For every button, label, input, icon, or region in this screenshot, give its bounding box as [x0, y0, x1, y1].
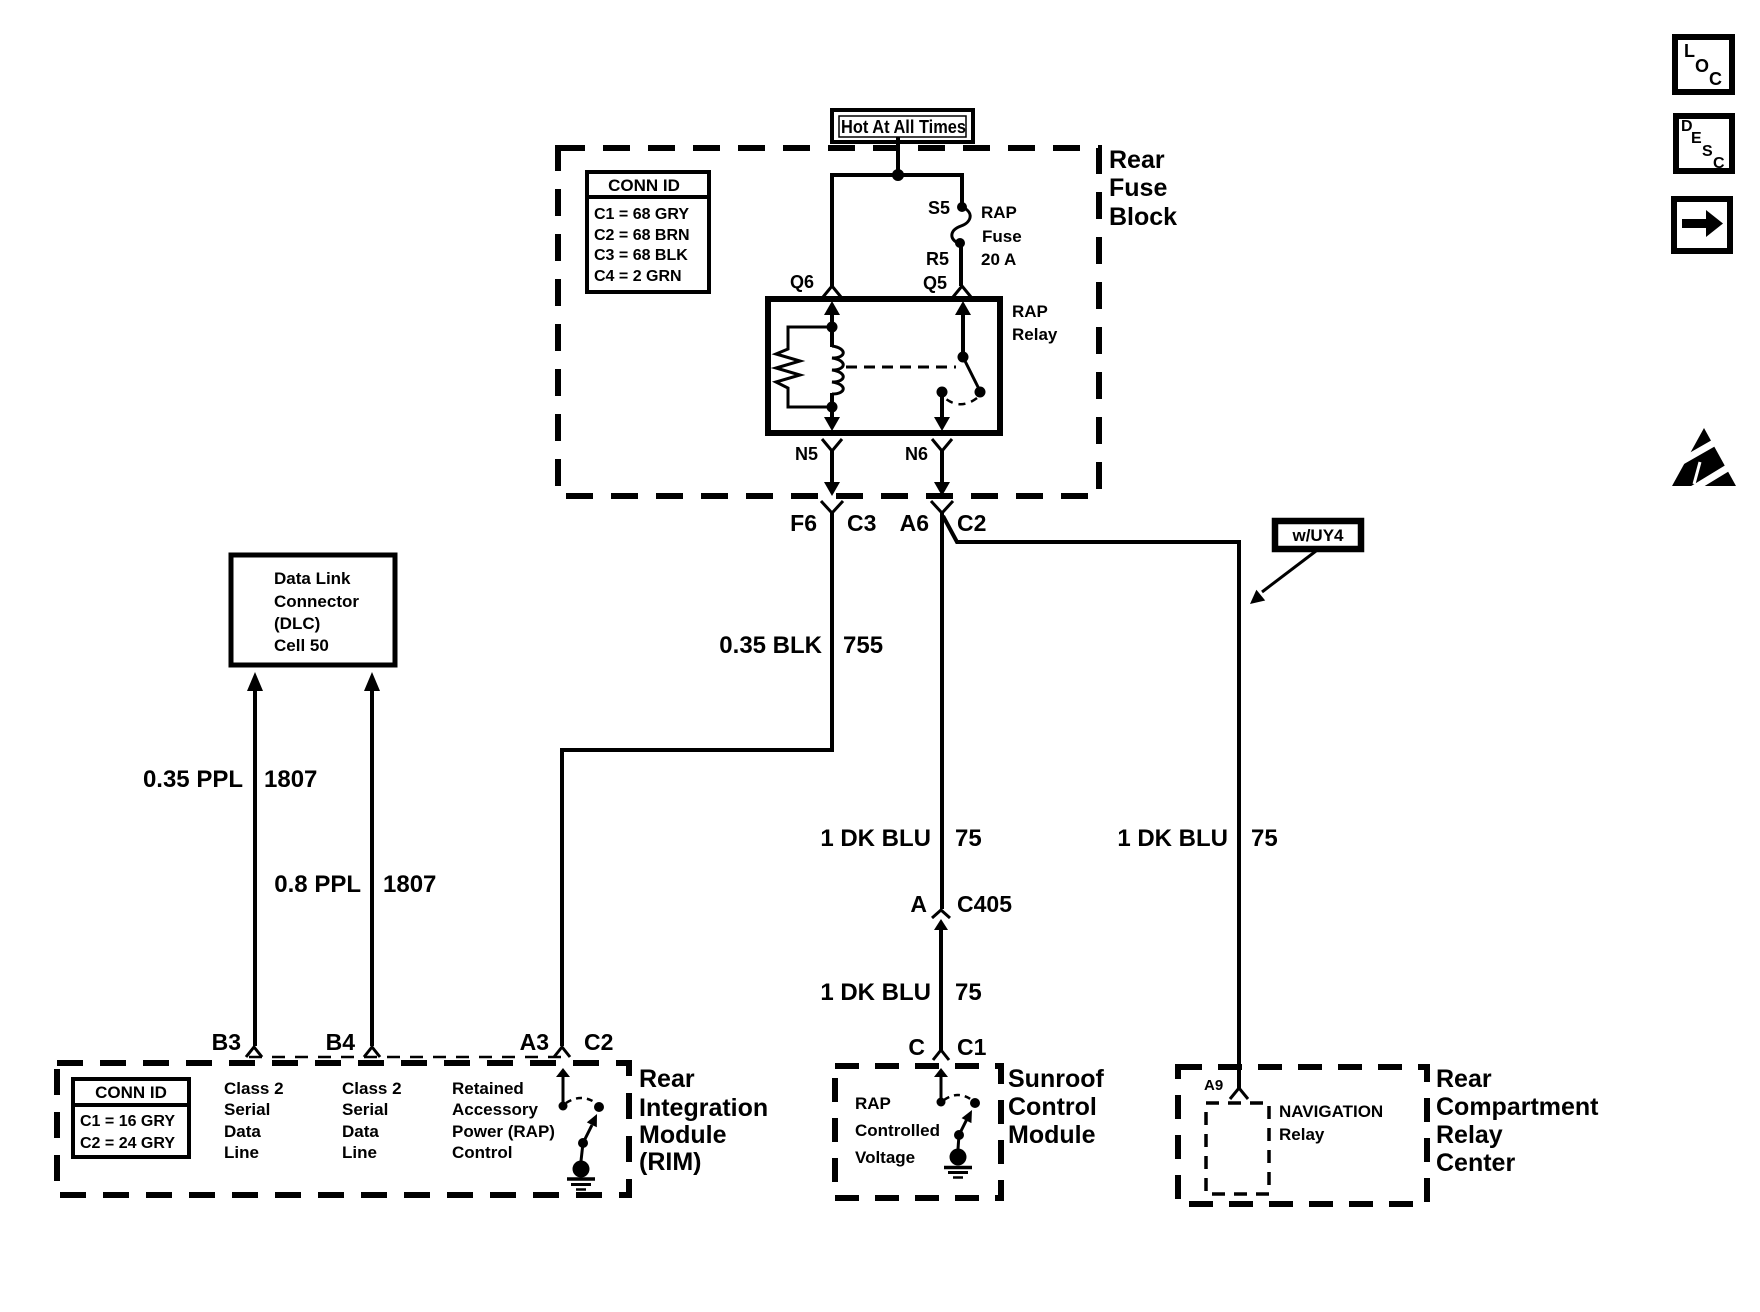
svg-text:Fuse: Fuse: [1109, 174, 1167, 202]
dashed throw arc: [946, 398, 977, 404]
terminal Q5: [953, 286, 971, 297]
svg-text:NAVIGATION: NAVIGATION: [1279, 1102, 1383, 1121]
svg-text:Rear: Rear: [639, 1065, 695, 1093]
relay pin 87 arrow: [934, 392, 950, 431]
svg-text:Data: Data: [224, 1122, 261, 1141]
svg-text:0.8 PPL: 0.8 PPL: [274, 871, 361, 898]
relay pin 30 arrow: [955, 301, 971, 357]
svg-text:R5: R5: [926, 249, 949, 269]
label 0.35 BLK 755: [719, 632, 883, 659]
Rear Integration Module name: [639, 1065, 768, 1176]
svg-text:N6: N6: [905, 444, 928, 464]
terminal C of sunroof module: [933, 1050, 949, 1060]
svg-text:C3 = 68 BLK: C3 = 68 BLK: [594, 247, 688, 264]
wire from Hot At All Times: [896, 137, 900, 175]
svg-text:Accessory: Accessory: [452, 1100, 539, 1119]
svg-text:0.35 BLK: 0.35 BLK: [719, 632, 822, 659]
DESC legend icon: [1676, 116, 1732, 172]
svg-text:w/UY4: w/UY4: [1291, 526, 1344, 545]
RIM connector face dotted line: [249, 1056, 568, 1059]
svg-text:Serial: Serial: [342, 1100, 388, 1119]
svg-text:755: 755: [843, 632, 883, 659]
svg-text:Data: Data: [342, 1122, 379, 1141]
LOC legend icon: [1675, 37, 1732, 92]
terminal N5: [822, 439, 842, 496]
svg-text:Relay: Relay: [1436, 1121, 1503, 1149]
wire 1807 PPL from B3 to DLC: [247, 672, 263, 1046]
svg-text:Class 2: Class 2: [224, 1079, 284, 1098]
svg-text:75: 75: [955, 979, 982, 1006]
svg-text:Fuse: Fuse: [982, 227, 1022, 246]
svg-text:A: A: [910, 891, 927, 917]
svg-text:1 DK BLU: 1 DK BLU: [1117, 825, 1228, 852]
wire branch to relay center: [943, 516, 1239, 1088]
sunroof switch arrow: [934, 1068, 948, 1099]
wire fuse to terminal Q5: [959, 244, 963, 286]
svg-text:CONN ID: CONN ID: [608, 176, 680, 195]
NAVIGATION Relay name: [1279, 1102, 1383, 1144]
svg-text:S5: S5: [928, 198, 950, 218]
svg-text:C3: C3: [847, 510, 876, 536]
Class 2 Serial Data Line label (B4): [342, 1079, 402, 1162]
svg-text:C: C: [908, 1034, 925, 1060]
navigation relay dashed box: [1206, 1103, 1269, 1194]
RIM switch contact node: [559, 1102, 568, 1111]
svg-text:O: O: [1695, 56, 1709, 76]
svg-text:B3: B3: [212, 1029, 241, 1055]
RIM switch to ground lead: [581, 1143, 583, 1161]
label 0.8 PPL 1807: [274, 871, 436, 898]
wire to terminal Q6: [830, 175, 834, 286]
svg-text:C: C: [1713, 155, 1725, 172]
svg-text:(RIM): (RIM): [639, 1148, 701, 1176]
svg-text:Cell 50: Cell 50: [274, 636, 329, 655]
svg-text:N5: N5: [795, 444, 818, 464]
terminal B3: [246, 1047, 262, 1057]
svg-text:Q6: Q6: [790, 272, 814, 292]
svg-text:0.35 PPL: 0.35 PPL: [143, 766, 243, 793]
terminal N6: [932, 439, 952, 496]
svg-text:Control: Control: [1008, 1093, 1097, 1121]
svg-text:Power (RAP): Power (RAP): [452, 1122, 555, 1141]
svg-text:Relay: Relay: [1279, 1125, 1325, 1144]
svg-text:RAP: RAP: [1012, 302, 1048, 321]
svg-text:L: L: [1684, 41, 1695, 61]
Rear Integration Module dashed boundary: [57, 1063, 629, 1195]
svg-text:75: 75: [955, 825, 982, 852]
svg-text:Class 2: Class 2: [342, 1079, 402, 1098]
CONN ID table (Rear Fuse Block): [587, 172, 709, 292]
junction: [892, 169, 904, 181]
terminal A3: [554, 1047, 570, 1057]
node coil top: [827, 322, 838, 333]
svg-text:1807: 1807: [383, 871, 436, 898]
sunroof switch upper node: [970, 1098, 980, 1108]
svg-text:Voltage: Voltage: [855, 1148, 915, 1167]
terminal A9: [1230, 1088, 1248, 1099]
svg-text:(DLC): (DLC): [274, 614, 320, 633]
RAP Fuse 20 A name: [981, 203, 1022, 269]
svg-text:75: 75: [1251, 825, 1278, 852]
svg-text:Line: Line: [342, 1143, 377, 1162]
sunroof switch dashed throw arc: [944, 1095, 972, 1100]
Hot At All Times power label box: [832, 110, 973, 142]
node switch arm end: [975, 387, 986, 398]
svg-text:RAP: RAP: [855, 1094, 891, 1113]
RIM RAP control switch arrow: [556, 1068, 570, 1103]
svg-text:Hot At All Times: Hot At All Times: [841, 117, 966, 137]
wire 1807 PPL from B4 to DLC: [364, 672, 380, 1046]
svg-text:CONN ID: CONN ID: [95, 1083, 167, 1102]
svg-text:B4: B4: [326, 1029, 356, 1055]
relay actuation dashed link: [846, 366, 956, 369]
Rear Fuse Block name: [1109, 146, 1177, 231]
relay coil: [832, 327, 843, 407]
inline connector C405: [932, 910, 950, 1050]
svg-text:20 A: 20 A: [981, 250, 1016, 269]
relay suppression resistor: [776, 327, 832, 407]
Sunroof Control Module dashed boundary: [835, 1066, 1001, 1198]
Sunroof Control Module name: [1008, 1065, 1104, 1149]
RIM switch arm: [583, 1114, 597, 1143]
Rear Compartment Relay Center name: [1436, 1065, 1599, 1177]
Class 2 Serial Data Line label (B3): [224, 1079, 284, 1162]
relay pin 86 arrow: [824, 301, 840, 327]
svg-text:Retained: Retained: [452, 1079, 524, 1098]
sunroof switch to ground lead: [958, 1135, 959, 1149]
wire 755 BLK from F6: [562, 513, 832, 1046]
label C C1: [908, 1034, 986, 1060]
RAP relay box: [768, 299, 1000, 433]
wire 75 DK BLU from A6: [940, 513, 944, 909]
connector A6 C2: [931, 501, 953, 513]
svg-text:Control: Control: [452, 1143, 512, 1162]
Data Link Connector DLC box: [231, 555, 395, 665]
node coil bottom: [827, 402, 838, 413]
svg-text:C2: C2: [957, 510, 986, 536]
svg-text:Sunroof: Sunroof: [1008, 1065, 1104, 1093]
RAP fuse 20A: [952, 202, 970, 248]
svg-text:1807: 1807: [264, 766, 317, 793]
svg-text:1 DK BLU: 1 DK BLU: [820, 825, 931, 852]
sunroof switch arm: [959, 1110, 972, 1135]
w/UY4 option tag: [1275, 521, 1361, 549]
svg-text:C1 = 68 GRY: C1 = 68 GRY: [594, 206, 689, 223]
svg-text:Block: Block: [1109, 203, 1177, 231]
RIM switch pivot node: [578, 1138, 588, 1148]
svg-text:Compartment: Compartment: [1436, 1093, 1599, 1121]
Retained Accessory Power RAP Control label: [452, 1079, 555, 1162]
svg-text:Rear: Rear: [1109, 146, 1165, 174]
node switch pivot: [958, 352, 969, 363]
wire bus to fuse and relay: [832, 175, 962, 205]
connector F6 C3: [821, 501, 843, 513]
svg-text:Data Link: Data Link: [274, 569, 351, 588]
svg-text:Connector: Connector: [274, 592, 359, 611]
svg-text:RAP: RAP: [981, 203, 1017, 222]
svg-text:Rear: Rear: [1436, 1065, 1492, 1093]
svg-text:C2 = 68 BRN: C2 = 68 BRN: [594, 227, 690, 244]
RIM ground: [567, 1161, 595, 1190]
svg-text:C2 = 24 GRY: C2 = 24 GRY: [80, 1135, 175, 1152]
svg-text:A3: A3: [520, 1029, 549, 1055]
terminal Q6: [823, 286, 841, 297]
svg-text:Module: Module: [639, 1121, 727, 1149]
svg-text:Center: Center: [1436, 1149, 1515, 1177]
svg-text:C: C: [1709, 69, 1722, 89]
relay switch arm: [963, 357, 980, 391]
CONN ID table (RIM): [73, 1079, 189, 1157]
svg-text:1 DK BLU: 1 DK BLU: [820, 979, 931, 1006]
RIM switch upper node: [594, 1102, 604, 1112]
sunroof ground: [944, 1149, 972, 1178]
sunroof switch pivot node: [954, 1130, 964, 1140]
svg-text:Controlled: Controlled: [855, 1121, 940, 1140]
svg-text:Relay: Relay: [1012, 325, 1058, 344]
svg-text:E: E: [1691, 130, 1702, 147]
svg-text:C2: C2: [584, 1029, 613, 1055]
svg-text:Serial: Serial: [224, 1100, 270, 1119]
RIM switch dashed throw arc: [566, 1098, 596, 1103]
svg-text:F6: F6: [790, 510, 817, 536]
terminal B4: [364, 1047, 380, 1057]
label A C405: [910, 891, 1012, 917]
sunroof switch contact node: [937, 1098, 946, 1107]
label 0.35 PPL 1807: [143, 766, 317, 793]
svg-text:Line: Line: [224, 1143, 259, 1162]
RAP Controlled Voltage label: [855, 1094, 940, 1167]
w/UY4 pointer arrow: [1250, 551, 1316, 604]
Rear Compartment Relay Center dashed boundary: [1178, 1067, 1427, 1204]
svg-text:Q5: Q5: [923, 273, 947, 293]
ESD sensitive device symbol: [1672, 428, 1739, 489]
label 1 DK BLU 75 (right): [1117, 825, 1277, 852]
svg-text:Module: Module: [1008, 1121, 1096, 1149]
svg-text:C1: C1: [957, 1034, 987, 1060]
svg-text:Integration: Integration: [639, 1094, 768, 1122]
svg-text:C405: C405: [957, 891, 1012, 917]
label 1 DK BLU 75 (center): [820, 825, 981, 852]
node normally-open contact: [937, 387, 948, 398]
forward arrow icon: [1674, 199, 1730, 251]
svg-text:A9: A9: [1204, 1077, 1223, 1094]
svg-text:C1 = 16 GRY: C1 = 16 GRY: [80, 1113, 175, 1130]
svg-text:A6: A6: [900, 510, 929, 536]
svg-text:C4 = 2 GRN: C4 = 2 GRN: [594, 268, 682, 285]
relay pin 85 arrow: [824, 407, 840, 431]
label 1 DK BLU 75 (lower): [820, 979, 981, 1006]
RAP Relay name: [1012, 302, 1058, 344]
Rear Fuse Block dashed boundary: [558, 148, 1099, 496]
svg-text:S: S: [1702, 143, 1713, 160]
